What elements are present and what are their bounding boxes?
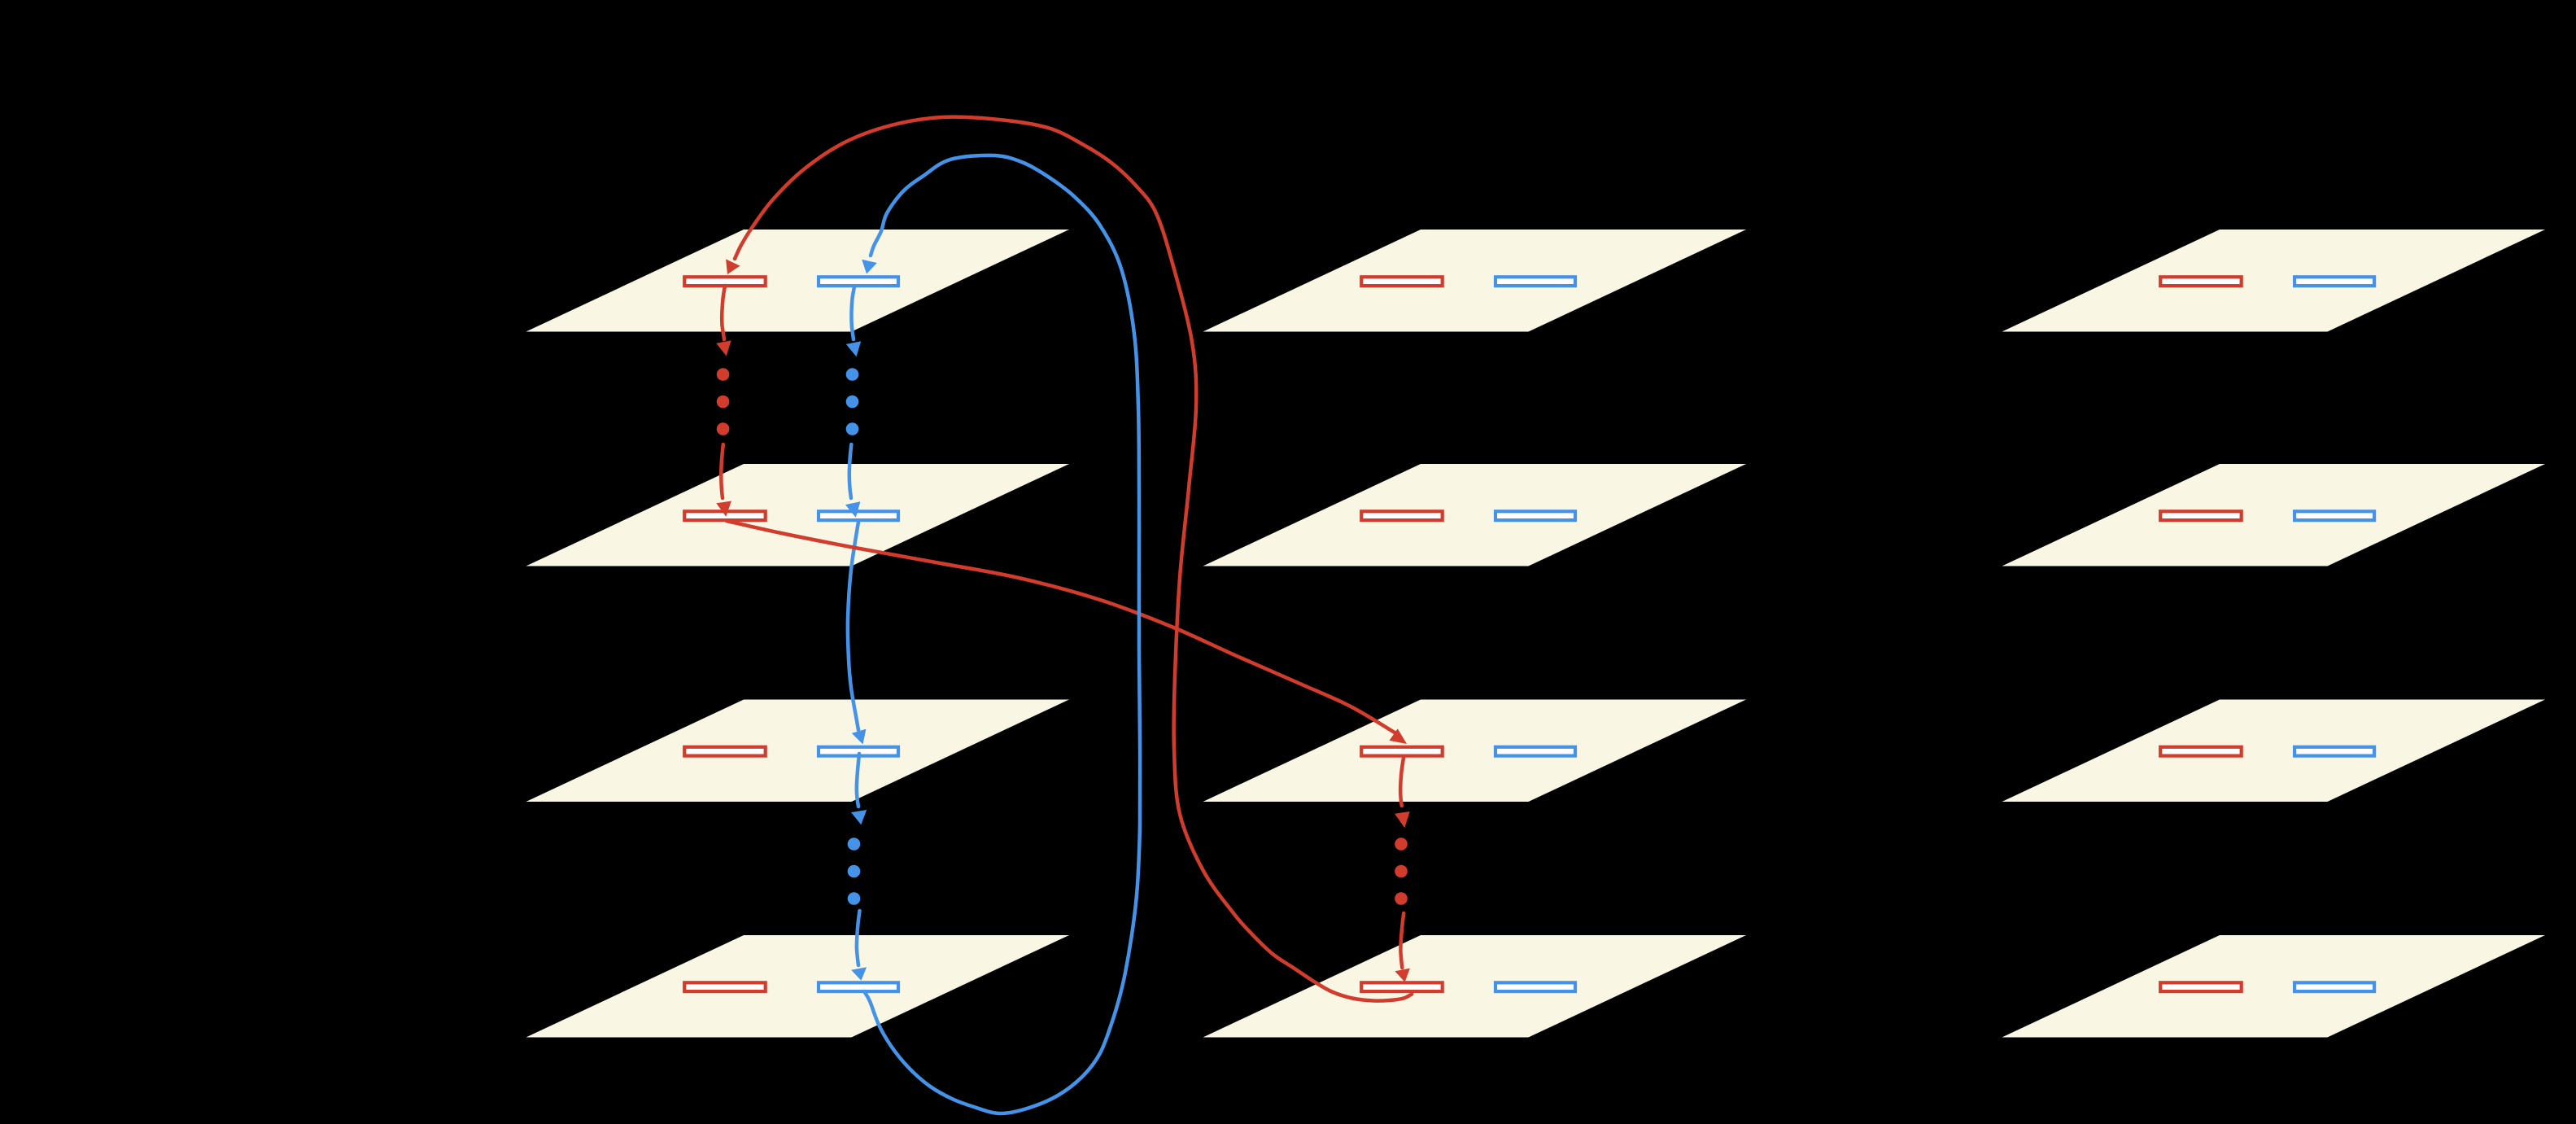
plane left tower layer 3	[526, 700, 1070, 803]
key cache rect right tower layer 3	[2160, 747, 2242, 756]
value cache rect right tower layer 1	[2294, 277, 2374, 286]
plane right tower layer 3	[2002, 700, 2546, 803]
value cache rect middle tower layer 1	[1495, 277, 1575, 286]
key cache rect left tower layer 4	[684, 982, 766, 991]
plane right tower layer 4	[2002, 935, 2546, 1038]
value cache rect right tower layer 3	[2294, 747, 2374, 756]
value cache rect middle tower layer 4	[1495, 982, 1575, 991]
red ellipsis dots middle tower layers 3-4	[1395, 838, 1408, 851]
plane left tower layer 1	[526, 230, 1070, 332]
blue arrow value layer2 to value layer3	[848, 522, 858, 730]
key cache rect left tower layer 3	[684, 747, 766, 756]
blue arrow dots to value layer4	[857, 911, 860, 965]
plane middle tower layer 4	[1203, 935, 1747, 1038]
plane middle tower layer 1	[1203, 230, 1747, 332]
blue arrow value layer1 to dots	[851, 286, 854, 339]
plane right tower layer 2	[2002, 464, 2546, 566]
big red loop arrow key mid-layer4 to key layer1	[735, 117, 1412, 1001]
red arrow key layer1 to dots	[722, 286, 725, 339]
key cache rect right tower layer 2	[2160, 511, 2242, 520]
key cache rect middle tower layer 1	[1361, 277, 1443, 286]
red arrow dots to key layer2	[721, 444, 723, 498]
blue ellipsis dots left tower layers 1-2	[846, 368, 859, 381]
value cache rect middle tower layer 2	[1495, 511, 1575, 520]
value cache rect middle tower layer 3	[1495, 747, 1575, 756]
red arrow key mid-layer3 to dots	[1400, 756, 1404, 806]
key cache rect right tower layer 1	[2160, 277, 2242, 286]
value cache rect left tower layer 1	[819, 277, 898, 286]
value cache rect right tower layer 4	[2294, 982, 2374, 991]
blue arrow value layer3 to dots	[857, 754, 859, 807]
plane middle tower layer 3	[1203, 700, 1747, 803]
red diagonal arrow key layer2 to key mid-layer3	[727, 521, 1395, 733]
value cache rect left tower layer 2	[819, 511, 898, 520]
plane middle tower layer 2	[1203, 464, 1747, 566]
key cache rect middle tower layer 2	[1361, 511, 1443, 520]
key cache rect middle tower layer 4	[1361, 982, 1443, 991]
key cache rect left tower layer 2	[684, 511, 766, 520]
plane right tower layer 1	[2002, 230, 2546, 332]
key cache rect left tower layer 1	[684, 277, 766, 286]
blue ellipsis dots left tower layers 3-4	[848, 838, 861, 851]
value cache rect left tower layer 3	[819, 747, 898, 756]
big blue loop arrow value layer4 to value layer1	[864, 155, 1140, 1113]
blue arrow dots to value layer2	[849, 444, 852, 498]
value cache rect right tower layer 2	[2294, 511, 2374, 520]
red arrow dots to key mid-layer4	[1400, 913, 1404, 968]
key cache rect middle tower layer 3	[1361, 747, 1443, 756]
plane left tower layer 4	[526, 935, 1070, 1038]
value cache rect left tower layer 4	[819, 982, 898, 991]
red ellipsis dots left tower layers 1-2	[717, 368, 730, 381]
plane left tower layer 2	[526, 464, 1070, 566]
key cache rect right tower layer 4	[2160, 982, 2242, 991]
